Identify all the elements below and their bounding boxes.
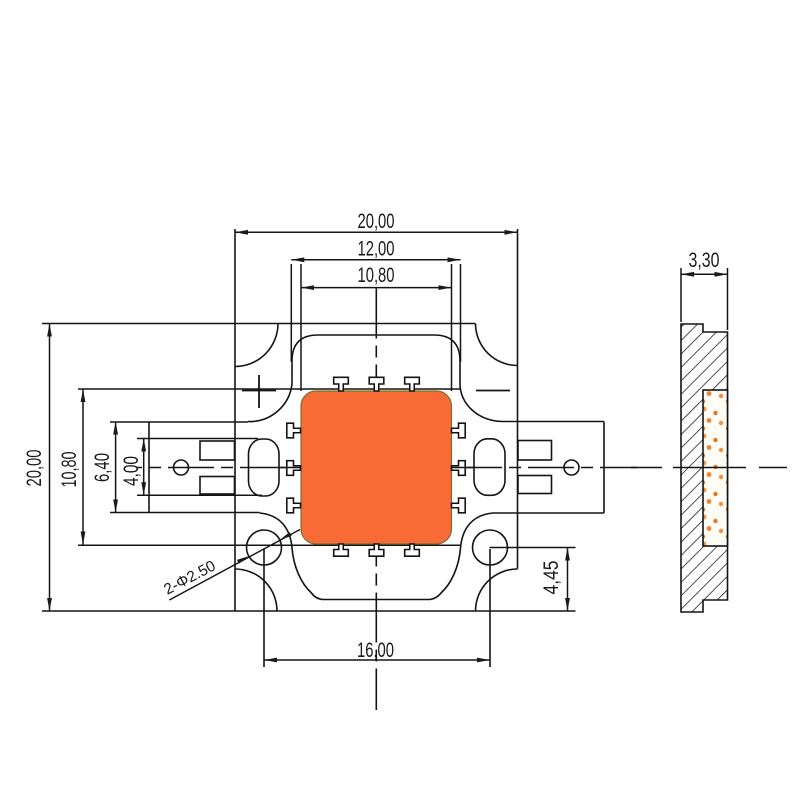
svg-text:4,00: 4,00 xyxy=(120,456,143,486)
svg-text:4,45: 4,45 xyxy=(540,561,563,595)
svg-text:16,00: 16,00 xyxy=(357,639,394,662)
svg-text:10,80: 10,80 xyxy=(58,452,81,488)
svg-text:12,00: 12,00 xyxy=(358,238,395,261)
svg-text:20,00: 20,00 xyxy=(23,450,46,487)
svg-text:3,30: 3,30 xyxy=(689,249,720,272)
svg-text:10,80: 10,80 xyxy=(358,264,395,287)
svg-text:20,00: 20,00 xyxy=(358,210,395,233)
svg-text:6,40: 6,40 xyxy=(91,453,114,482)
